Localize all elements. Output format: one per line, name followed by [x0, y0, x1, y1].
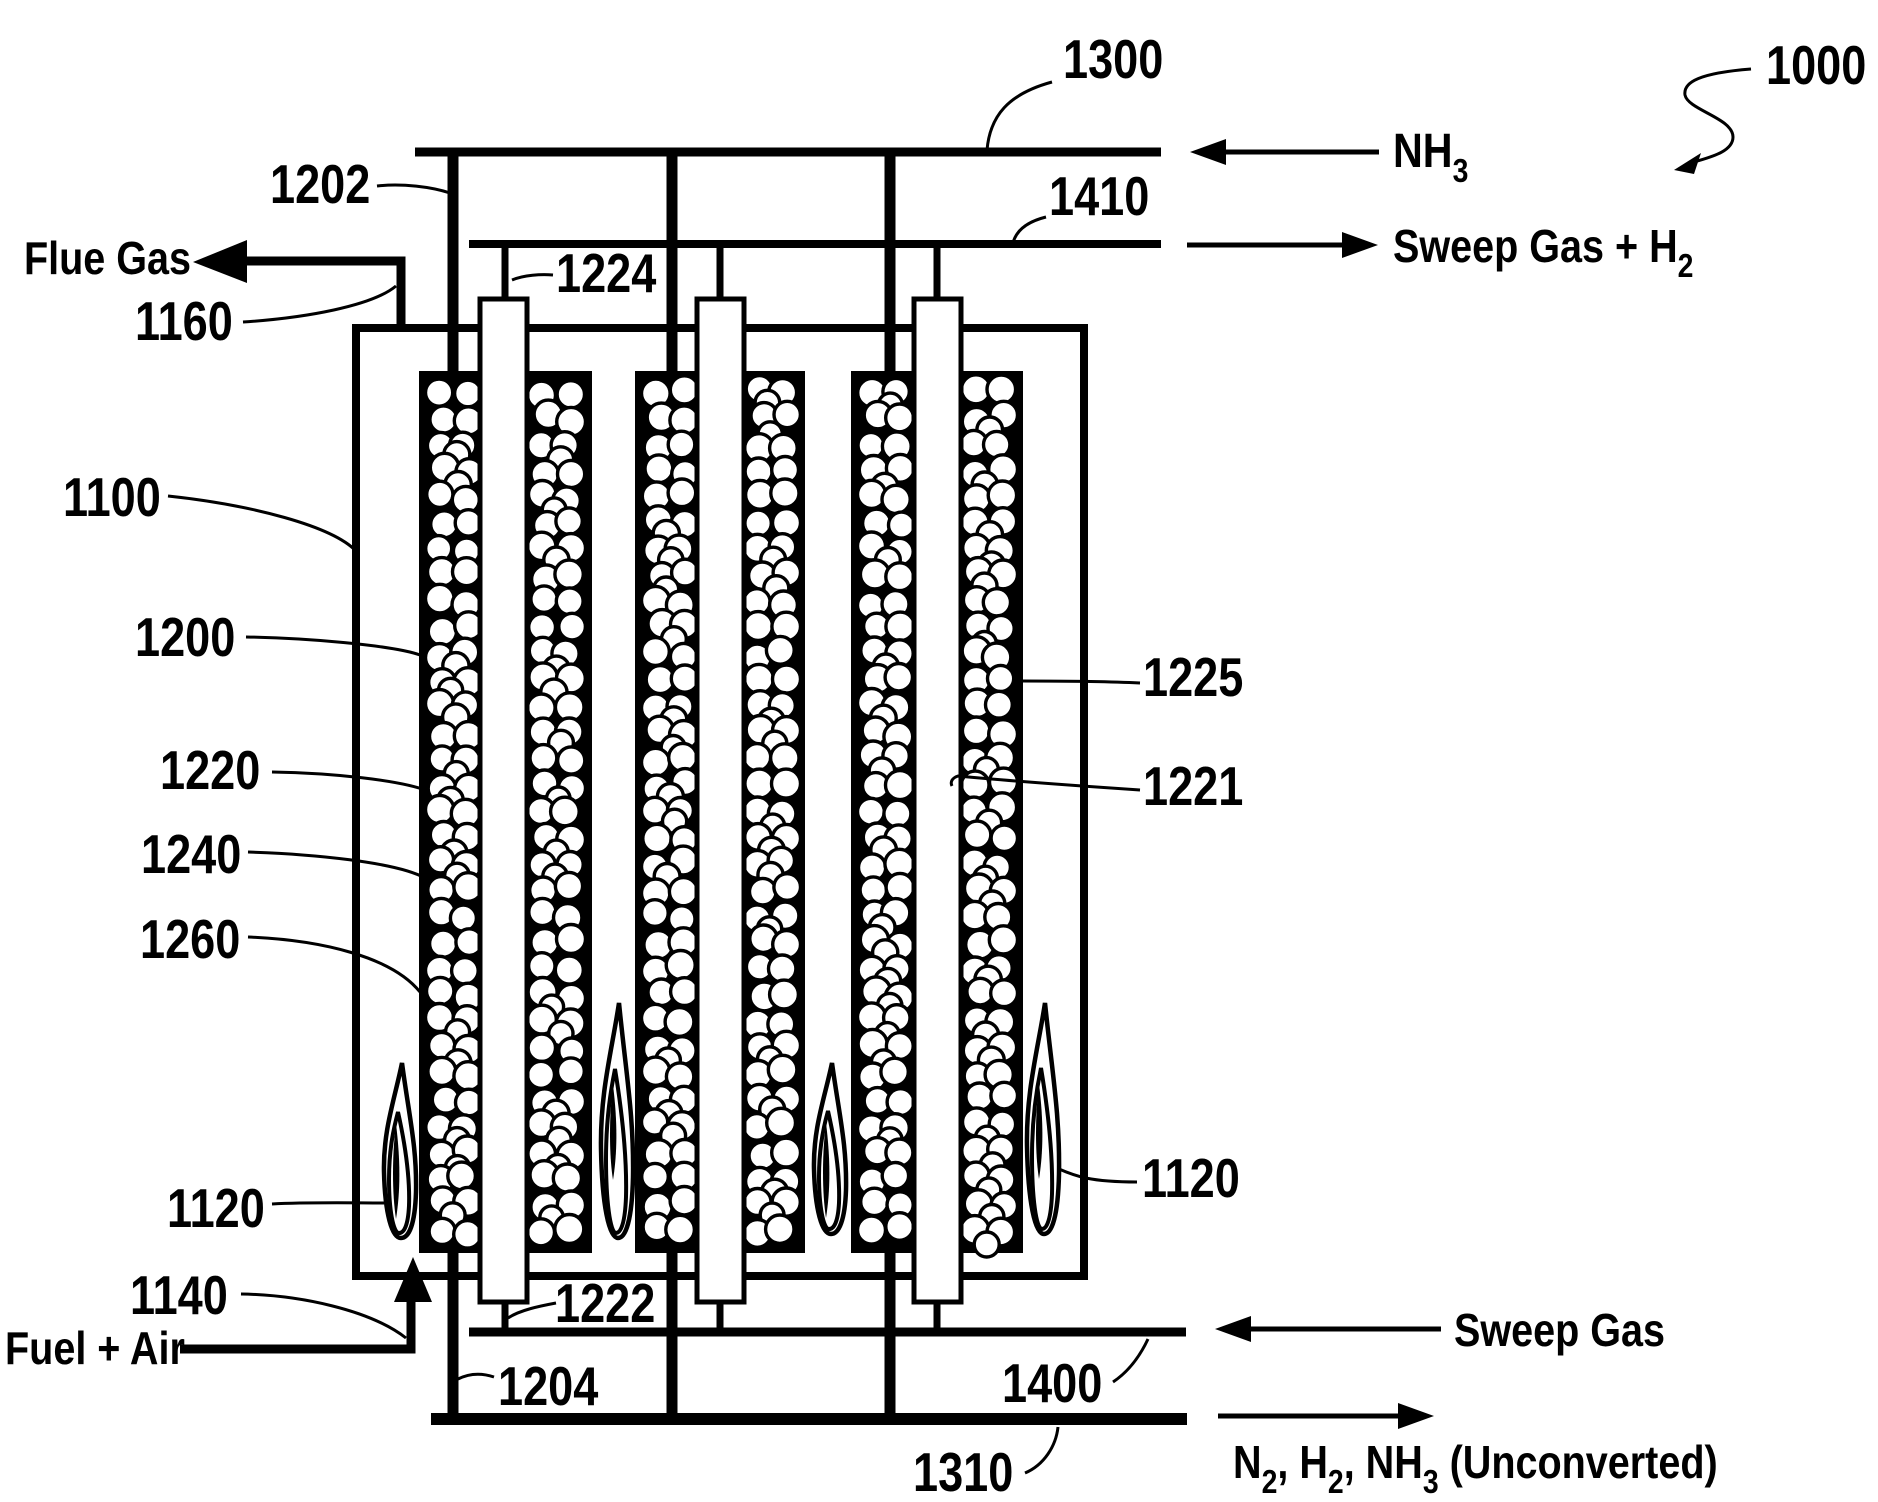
feed tube (bed 3) [885, 156, 896, 377]
svg-text:1400: 1400 [1002, 1352, 1102, 1414]
svg-text:1220: 1220 [160, 739, 260, 801]
flue gas duct 1160 [245, 261, 401, 328]
NH3 inlet arrow [1218, 150, 1379, 155]
leader line for 1224 [512, 275, 553, 280]
svg-text:1202: 1202 [270, 153, 370, 215]
leader line for 1160 [243, 286, 396, 322]
leader squiggle + arrowhead for 1000 [1685, 69, 1751, 163]
leader line for 1300 [987, 82, 1052, 150]
svg-text:1310: 1310 [913, 1441, 1013, 1502]
sweep connector (tube 3) [934, 1302, 941, 1332]
burner flame 1120 (left) [384, 1063, 416, 1238]
manifold 1410 (sweep gas + H2 header) [469, 240, 1161, 248]
svg-text:1225: 1225 [1143, 646, 1243, 708]
leader line for 1120 (left) [272, 1203, 384, 1204]
leader line for 1400 [1113, 1339, 1148, 1382]
feed tube 1202 (bed 1) [448, 156, 459, 377]
catalyst bed 1200 (bed 1, packed bed with catalyst particles 1260) [421, 373, 590, 1251]
permeate connector 1224 (tube 1 to header 1410) [502, 244, 509, 299]
svg-text:1000: 1000 [1766, 34, 1866, 96]
flue gas arrowhead [193, 240, 247, 283]
sweep gas inlet arrow (bottom) [1247, 1327, 1441, 1332]
leader line for 1222 [508, 1303, 556, 1318]
catalyst bed (bed 3) [853, 373, 1021, 1251]
leader line for 1200 [246, 637, 420, 655]
sweep connector (tube 2) [717, 1302, 724, 1332]
svg-text:1140: 1140 [130, 1264, 228, 1326]
fuel + air supply pipe 1140 [180, 1300, 411, 1349]
catalyst particles (white pellets) [426, 375, 1018, 1257]
membrane tube 1220/1221 (bed 1) [480, 299, 527, 1302]
burner flame (third) [814, 1063, 846, 1234]
manifold 1400 (sweep gas supply header) [469, 1328, 1186, 1337]
manifold 1310 (raffinate header) [431, 1413, 1187, 1425]
outlet tube (bed 3) [885, 1249, 896, 1419]
fuel + air arrowhead [394, 1257, 432, 1302]
svg-text:1204: 1204 [498, 1355, 598, 1417]
svg-text:1100: 1100 [63, 466, 161, 528]
svg-text:1120: 1120 [167, 1177, 265, 1239]
membrane tube (bed 2) [697, 299, 744, 1302]
catalyst bed (bed 2) [637, 373, 803, 1251]
leader line for 1204 [458, 1374, 494, 1379]
svg-text:1120: 1120 [1142, 1147, 1240, 1209]
membrane tube (bed 3) [914, 299, 961, 1302]
leader line for 1260 [248, 937, 420, 992]
svg-text:Fuel + Air: Fuel + Air [5, 1323, 185, 1374]
burner flame (right) 1120 [1027, 1003, 1059, 1234]
outlet tube 1204 (bed 1) [448, 1249, 459, 1419]
manifold 1300 (NH3 feed header) [415, 148, 1161, 157]
sweep gas + H2 outlet arrow [1187, 243, 1346, 248]
svg-text:1240: 1240 [141, 823, 241, 885]
outlet tube (bed 2) [667, 1249, 678, 1419]
svg-text:1224: 1224 [556, 242, 656, 304]
leader line for 1220 [272, 772, 428, 791]
leader line for 1410 [1013, 217, 1046, 243]
svg-text:1300: 1300 [1063, 28, 1163, 90]
permeate connector (tube 3) [934, 244, 941, 299]
leader line for 1120 (right) [1059, 1169, 1137, 1182]
leader line for 1221 [951, 776, 1140, 790]
svg-text:1222: 1222 [555, 1272, 655, 1334]
furnace shell 1100 [356, 328, 1084, 1276]
leader line for 1310 [1025, 1427, 1058, 1473]
leader line for 1240 [248, 852, 425, 878]
svg-text:1200: 1200 [135, 606, 235, 668]
svg-text:1410: 1410 [1049, 165, 1149, 227]
leader line for 1202 [377, 185, 450, 193]
leader line for 1225 [1022, 681, 1140, 683]
svg-text:Sweep Gas: Sweep Gas [1454, 1305, 1665, 1356]
raffinate outlet arrow (bottom) [1218, 1414, 1402, 1419]
leader line for 1100 [168, 496, 356, 551]
svg-text:1221: 1221 [1143, 755, 1243, 817]
sweep connector 1222 (tube 1 to header 1400) [502, 1302, 509, 1332]
svg-text:1260: 1260 [140, 908, 240, 970]
leader line for 1140 [241, 1294, 406, 1338]
permeate connector (tube 2) [717, 244, 724, 299]
feed tube (bed 2) [667, 156, 678, 377]
svg-text:1160: 1160 [135, 290, 233, 352]
burner flame (second) [601, 1003, 633, 1238]
svg-text:Flue Gas: Flue Gas [24, 233, 191, 284]
